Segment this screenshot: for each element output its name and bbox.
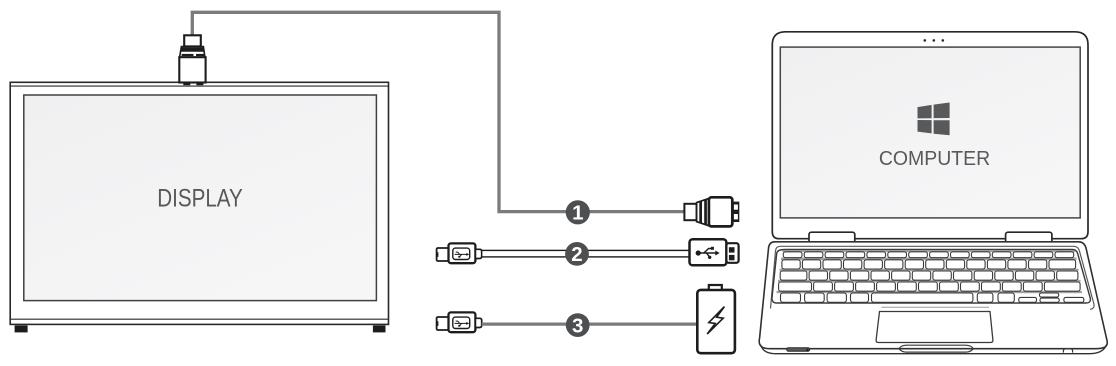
laptop base bottom thickness line [761, 345, 1107, 354]
keyboard row shading bands [777, 250, 1083, 293]
hdmi connector 1 tip window top [734, 205, 738, 210]
hdmi connector 1 rib bar a [699, 201, 702, 224]
laptop front lip notch [899, 345, 974, 352]
laptop hinge left [809, 232, 855, 243]
display top connector collar [180, 47, 205, 58]
laptop power button bump [1063, 349, 1072, 353]
usb-a tip square bottom [729, 255, 735, 260]
display top connector collar dash left [182, 54, 194, 56]
laptop hinge dots [836, 244, 838, 246]
laptop deck inner line [771, 246, 1095, 309]
keyboard plate [772, 250, 1090, 304]
display screen [24, 95, 377, 301]
windows logo [918, 103, 950, 136]
hdmi connector 1 ribbed section [697, 198, 709, 225]
wire cable1 from display to HDMI connector [192, 12, 685, 211]
cable3 mini-usb usb mark [455, 321, 467, 325]
cable2 mini-usb neck [475, 249, 481, 258]
laptop screen lid [772, 32, 1088, 239]
laptop camera dots [924, 39, 927, 42]
display foot right [373, 325, 386, 332]
numbered badge 3 [566, 313, 590, 337]
svg-text:2: 2 [571, 243, 582, 266]
display top connector collar dash right [196, 54, 204, 56]
cable2 mini-usb usb mark [455, 252, 467, 256]
display top connector strain relief [184, 35, 201, 46]
cable2 mini-usb tip cap [437, 248, 449, 261]
hdmi connector 1 tip window bottom [734, 214, 738, 219]
display top connector tab right [196, 83, 203, 86]
usb-a trident symbol [698, 249, 716, 257]
battery lightning bolt [707, 307, 724, 334]
battery charger tab [709, 285, 722, 290]
numbered badge 1 [566, 200, 590, 224]
usb-a connector tip [726, 243, 738, 263]
cable2 mini-usb inner panel [453, 248, 470, 259]
hdmi connector 1 strain relief [684, 204, 696, 220]
display top connector collar band [181, 47, 205, 51]
hdmi connector 1 body [709, 197, 732, 226]
trackpad [876, 312, 993, 343]
usb-a tip square top [729, 247, 735, 252]
display bottom chin line [10, 318, 388, 320]
cable2 mini-usb tip slot [436, 252, 438, 257]
hdmi connector 1 tip [732, 202, 739, 222]
usb-a connector body [690, 239, 727, 265]
trackpad top faint line [881, 306, 989, 308]
laptop side port slot [787, 348, 810, 352]
svg-text:DISPLAY: DISPLAY [157, 185, 243, 213]
display top connector tab left [183, 83, 190, 86]
cable2 mini-usb body [449, 243, 476, 263]
laptop hinge right [1006, 232, 1052, 243]
svg-text:3: 3 [572, 314, 583, 337]
cable2 tube cable [482, 250, 690, 257]
display monitor outer frame [10, 82, 388, 324]
display foot left [15, 325, 28, 332]
svg-text:COMPUTER: COMPUTER [879, 148, 990, 170]
keyboard keys [779, 252, 1084, 303]
display top connector body [179, 57, 205, 82]
cable3 mini-usb inner panel [453, 317, 470, 328]
hdmi connector 1 rib bar b [704, 199, 707, 225]
cable3 mini-usb tip slot [436, 321, 438, 326]
cable3 mini-usb tip cap [437, 317, 449, 330]
wire cable3 gray lead [482, 322, 698, 325]
battery charger body [697, 290, 735, 353]
svg-text:1: 1 [572, 202, 583, 225]
cable3 mini-usb neck [475, 318, 481, 327]
display top bezel line [10, 85, 388, 87]
laptop base body [759, 242, 1107, 349]
cable3 mini-usb body [449, 312, 476, 332]
laptop inner screen [780, 47, 1080, 218]
numbered badge 2 [565, 242, 589, 266]
